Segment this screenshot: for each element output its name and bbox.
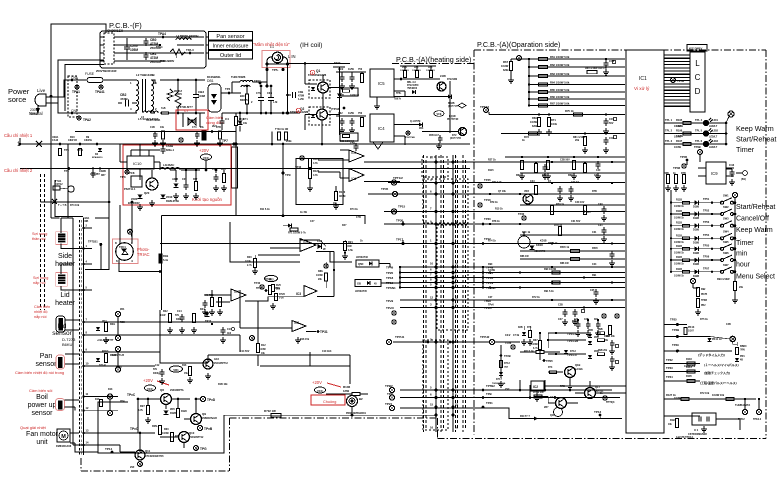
svg-text:Vi xử lý: Vi xử lý (634, 85, 650, 91)
test points right of bus (478, 178, 491, 245)
wire transformer out top (160, 79, 205, 81)
svg-text:C40: C40 (596, 169, 601, 172)
svg-text:1/16W: 1/16W (162, 433, 169, 435)
svg-text:R105: R105 (686, 375, 692, 378)
svg-text:1/16W 1k: 1/16W 1k (674, 252, 685, 254)
transistor Q1 inverter (308, 69, 330, 109)
svg-text:TP21: TP21 (385, 402, 393, 406)
wire trunk x101 (85, 218, 109, 270)
lid heater element (56, 264, 73, 290)
label Pan sensor (35, 353, 57, 368)
svg-text:R?42 1W: R?42 1W (533, 391, 544, 394)
annotation box Khoi tao nguon (123, 145, 231, 205)
svg-text:IC6: IC6 (351, 151, 356, 155)
wire comparator band (240, 297, 304, 328)
svg-text:R16 15k: R16 15k (300, 338, 310, 341)
svg-text:TPLC1: TPLC1 (567, 332, 577, 336)
wire IC6 inputs (318, 160, 349, 178)
button rows right rail (734, 201, 737, 276)
row TP33 signal (664, 366, 730, 375)
svg-text:TPA4: TPA4 (158, 32, 166, 36)
label Lid sensor (52, 323, 76, 347)
label Start/Reheat (736, 204, 775, 211)
capacitor C4 (212, 113, 229, 130)
components right of IC5 (400, 75, 466, 133)
label Fan motor unit (26, 431, 59, 446)
components rows 251-259 (560, 246, 615, 266)
svg-text:7uB: 7uB (161, 107, 166, 110)
svg-text:R?4 1k: R?4 1k (488, 240, 497, 243)
svg-text:15: 15 (455, 403, 459, 407)
components strip above IC10 (150, 126, 223, 146)
resistor R11 (234, 113, 244, 132)
svg-text:TPB: TPB (486, 392, 492, 396)
svg-text:CA16: CA16 (52, 139, 59, 142)
svg-text:R27 1k: R27 1k (488, 159, 496, 162)
svg-text:R110: R110 (116, 366, 122, 369)
wire lower bus to inverter (222, 112, 300, 115)
svg-text:TP19: TP19 (486, 281, 494, 285)
svg-text:D19B: D19B (693, 263, 699, 266)
svg-text:TPA4: TPA4 (156, 45, 163, 49)
svg-text:IC2: IC2 (533, 385, 538, 389)
svg-text:2F: 2F (323, 248, 326, 251)
test point TP30 left (396, 219, 405, 226)
svg-text:6-?k: 6-?k (533, 348, 538, 350)
svg-text:TPN5: TPN5 (546, 359, 553, 363)
svg-text:ZD1: ZD1 (102, 320, 107, 323)
wire fan rail (137, 399, 139, 433)
svg-text:1/16W 1k: 1/16W 1k (674, 242, 685, 244)
svg-text:IC3: IC3 (296, 292, 301, 296)
svg-text:BBD0: BBD0 (740, 345, 747, 348)
resistor R60 (585, 67, 607, 74)
svg-text:105M: 105M (130, 48, 138, 52)
wires PCB-F to sensor boxes (206, 37, 209, 53)
svg-text:R11B: R11B (676, 245, 682, 248)
svg-text:R63 1/16W 5.6k: R63 1/16W 5.6k (550, 72, 570, 76)
inductor L1 IH coil (262, 45, 290, 68)
svg-text:250VTBCR104F: 250VTBCR104F (96, 69, 117, 73)
test point TP50 (671, 78, 685, 83)
LCD bus hatch lines (664, 55, 690, 106)
test point TPA1 (72, 85, 80, 94)
svg-text:Q1: Q1 (316, 69, 320, 73)
svg-text:R11B: R11B (676, 256, 682, 259)
svg-text:R05L: R05L (152, 425, 158, 428)
power +20V fan (143, 378, 169, 391)
wire IC10 internals (120, 162, 200, 180)
transistor Q17 lower (575, 381, 615, 404)
components below buttons (690, 278, 707, 315)
capacitor C6B (256, 85, 264, 115)
varistor ZNR1 (175, 79, 181, 115)
red mark driver 2 (296, 108, 300, 113)
power rail +20V oval (199, 148, 212, 171)
svg-text:R115: R115 (488, 169, 494, 172)
wire L IN (288, 62, 351, 80)
svg-text:R20: R20 (247, 256, 252, 259)
svg-text:R64 1/16W 5.6k: R64 1/16W 5.6k (550, 81, 570, 85)
svg-text:C3B: C3B (298, 90, 303, 94)
svg-text:TPB-: TPB- (396, 93, 402, 95)
capacitor C33 (603, 58, 616, 75)
svg-text:R545 1k: R545 1k (560, 246, 570, 249)
svg-text:R78 1k: R78 1k (554, 224, 563, 227)
svg-text:R90 1/16W: R90 1/16W (544, 268, 557, 271)
svg-text:SW4: SW4 (723, 229, 729, 233)
svg-text:BIC1: BIC1 (240, 94, 246, 98)
capacitor C3B (286, 90, 304, 101)
svg-text:TPvD: TPvD (484, 306, 493, 310)
annotation Quat giai nhiet (20, 425, 47, 430)
svg-text:R117?.?: R117?.? (520, 414, 530, 418)
opamp IC6 lower (349, 169, 400, 182)
svg-text:SW7: SW7 (723, 263, 729, 267)
svg-text:103M: 103M (198, 94, 206, 98)
svg-text:R11D: R11D (102, 350, 108, 353)
diode D1 below bus (238, 112, 249, 132)
inductor L4 (176, 34, 198, 40)
label IH coil (300, 42, 322, 49)
svg-text:HC56AT46: HC56AT46 (356, 256, 368, 259)
svg-text:TP40: TP40 (254, 281, 261, 285)
svg-text:R99 1/16W: R99 1/16W (717, 278, 730, 281)
label Neutral (29, 111, 43, 116)
svg-text:Quạt giải nhiệt: Quạt giải nhiệt (20, 425, 47, 430)
zener ZD20 (128, 195, 142, 205)
svg-text:R12B: R12B (170, 412, 176, 415)
wire rows TPv9 TPvO (386, 299, 620, 324)
svg-text:R?3: R?3 (548, 367, 553, 369)
svg-text:1-2W: 1-2W (298, 98, 304, 101)
reset ic IC9 (698, 162, 734, 184)
row TP32 signal (664, 358, 739, 368)
test point TPT1-2 (391, 176, 403, 185)
svg-text:IC6: IC6 (351, 177, 356, 181)
svg-text:TP45: TP45 (381, 187, 389, 191)
label Cancel/Off (736, 216, 769, 223)
wire IH coil legs (265, 62, 289, 114)
svg-text:R66 1/16W 5.6k: R66 1/16W 5.6k (550, 95, 570, 99)
svg-text:TPT1B1: TPT1B1 (88, 240, 98, 244)
zener rows TPLC1-3 (548, 329, 619, 370)
svg-text:VR3: VR3 (524, 190, 529, 193)
svg-text:R?26: R?26 (279, 293, 286, 296)
svg-text:R123: R123 (670, 419, 676, 422)
board connector bus lines (424, 155, 466, 432)
svg-text:Keep Warm: Keep Warm (736, 124, 774, 133)
svg-text:Q7 10k: Q7 10k (498, 190, 507, 193)
svg-text:16: 16 (455, 426, 459, 430)
svg-text:VR1: VR1 (173, 368, 179, 372)
svg-text:1/16W: 1/16W (531, 344, 538, 346)
test point TP43 (331, 107, 345, 111)
test point TP14 (105, 447, 142, 469)
switch SW4 Timer (670, 229, 735, 244)
svg-text:Chuông: Chuông (323, 400, 336, 404)
svg-text:(TP43): (TP43) (331, 107, 340, 111)
test point TP45 (381, 187, 398, 197)
svg-text:R?5: R?5 (527, 327, 532, 329)
wire CN1 to fuse (72, 79, 86, 81)
wire heater feed (41, 201, 111, 204)
diode D30 cluster (170, 169, 199, 200)
svg-text:SW1: SW1 (723, 194, 729, 198)
diode pair cluster 525 (518, 326, 533, 345)
svg-text:ZDB: ZDB (588, 329, 593, 332)
wire trunk x240 (239, 290, 241, 352)
test point TPG (194, 446, 207, 451)
svg-text:L203: L203 (712, 139, 718, 143)
svg-text:C31: C31 (592, 231, 597, 234)
capacitor CB0 (144, 38, 162, 50)
svg-text:IC3: IC3 (234, 290, 239, 294)
gate drive ic IC4 (370, 114, 422, 149)
gate drive ic IC5 (370, 69, 450, 109)
svg-text:EPA08010: EPA08010 (92, 156, 103, 159)
optocoupler PC8 (124, 171, 142, 191)
svg-text:12: 12 (455, 296, 459, 300)
annotation Cam bien soi (29, 388, 52, 393)
wire F-board feeder 3 (65, 65, 104, 112)
components below IC9 (664, 145, 702, 191)
label PCB-A operation side (477, 40, 560, 49)
svg-text:TPG: TPG (200, 447, 207, 451)
wire boil sensor (65, 400, 80, 411)
label Live (37, 88, 46, 93)
svg-text:6T30/2SB12M6: 6T30/2SB12M6 (290, 110, 309, 114)
svg-text:Q5D: Q5D (358, 262, 363, 266)
resistor R1B dark (159, 254, 169, 263)
svg-text:C64B: C64B (166, 144, 173, 148)
svg-text:R22: R22 (163, 310, 168, 313)
svg-text:R117 1k: R117 1k (524, 349, 534, 353)
inductor L5 choke (141, 107, 169, 122)
opamp IC3 a (300, 239, 352, 263)
side heater element (56, 218, 72, 249)
svg-text:50V: 50V (153, 369, 158, 371)
svg-text:R11 5-1k: R11 5-1k (260, 208, 270, 211)
svg-text:X 1: X 1 (694, 428, 699, 432)
svg-text:hour: hour (736, 262, 751, 269)
svg-text:TP4?: TP4? (334, 61, 341, 65)
svg-text:R67: R67 (193, 178, 198, 181)
svg-text:D?B: D?B (216, 126, 221, 129)
annotation Soi nung nap noi (33, 276, 48, 285)
svg-text:RGBL6TBH: RGBL6TBH (166, 200, 179, 203)
svg-text:2SD13BPTA: 2SD13BPTA (170, 389, 184, 392)
svg-text:Q11: Q11 (145, 449, 151, 453)
svg-text:PK11 1k: PK11 1k (712, 338, 722, 341)
inductor L6 (231, 75, 261, 93)
svg-text:R86 1W: R86 1W (520, 255, 529, 258)
label P.C.B.-(F) (109, 21, 142, 30)
svg-text:C2B: C2B (558, 304, 563, 307)
svg-text:D11: D11 (112, 354, 117, 357)
component value labels texture (108, 125, 731, 403)
svg-text:sensor: sensor (52, 330, 72, 337)
svg-text:P.C.B.-(A)(heating side): P.C.B.-(A)(heating side) (396, 55, 471, 64)
components IC3b bias (202, 290, 231, 315)
svg-text:20k: 20k (739, 286, 744, 289)
wire resonant vertical (333, 61, 345, 135)
svg-text:TP54: TP54 (703, 233, 710, 237)
svg-text:R16: R16 (182, 364, 187, 367)
capacitor C30 (212, 167, 227, 191)
svg-text:620k: 620k (532, 125, 538, 128)
svg-text:C?B: C?B (356, 216, 361, 219)
svg-text:+20V: +20V (143, 378, 153, 383)
LCD block (690, 52, 705, 112)
oval VR2 (256, 275, 286, 309)
row serial (664, 393, 762, 421)
svg-text:50V: 50V (609, 122, 614, 125)
components boil sensor tp (95, 394, 113, 416)
svg-text:R73: R73 (524, 135, 529, 139)
svg-text:TP18: TP18 (386, 276, 394, 280)
opamp IC3 c (292, 321, 328, 344)
svg-text:TP15: TP15 (398, 205, 406, 209)
svg-text:TP32: TP32 (666, 358, 673, 362)
svg-text:1/16W: 1/16W (676, 135, 684, 138)
svg-text:VCE: VCE (437, 113, 442, 116)
svg-text:IC5: IC5 (378, 81, 385, 86)
svg-text:C59: C59 (350, 141, 355, 145)
button rows vertical feed line (670, 190, 672, 272)
varistor ZNR1Z (167, 89, 183, 101)
svg-text:EPA3000V: EPA3000V (128, 202, 140, 205)
row TPB right labels (482, 384, 496, 408)
svg-text:1&#176;TPK3.1: 1&#176;TPK3.1 (676, 436, 694, 439)
regulator IC10 (127, 150, 160, 169)
svg-text:L201: L201 (712, 118, 718, 122)
test point TP36 (673, 164, 686, 170)
svg-text:TPv9: TPv9 (386, 299, 394, 303)
board connector outline upper (422, 157, 468, 223)
svg-text:4.7k: 4.7k (313, 174, 318, 177)
svg-text:C31: C31 (598, 224, 603, 227)
capacitor cluster C20 (574, 319, 601, 336)
svg-text:R45: R45 (428, 66, 433, 69)
svg-text:BQ1D: BQ1D (449, 115, 456, 118)
board connector junction dots (435, 161, 455, 417)
svg-text:R196: R196 (676, 129, 683, 133)
svg-text:1/16W 1k: 1/16W 1k (674, 264, 685, 266)
transistor Q6 fan driver (138, 388, 190, 405)
svg-text:R61 1/16W 5.6k: R61 1/16W 5.6k (550, 55, 570, 59)
svg-text:1/2W: 1/2W (348, 112, 354, 115)
svg-text:R11B: R11B (676, 199, 682, 202)
svg-text:10: 10 (430, 262, 434, 266)
svg-text:R195: R195 (676, 118, 683, 122)
svg-text:R6B: R6B (664, 172, 669, 175)
svg-text:TP2B: TP2B (672, 328, 679, 332)
svg-text:C4?: C4? (310, 220, 315, 223)
svg-text:PKM22EPBH2001: PKM22EPBH2001 (346, 412, 367, 415)
resistor R67 pullup (501, 56, 529, 84)
svg-text:CN2B: CN2B (99, 170, 106, 173)
components op rows 300-320 (520, 300, 625, 342)
LED row L201 Keep Warm (664, 118, 727, 128)
svg-text:?N54NV3: ?N54NV3 (407, 87, 418, 90)
svg-text:Cancel/Off: Cancel/Off (736, 216, 769, 223)
svg-text:R11B: R11B (676, 222, 682, 225)
svg-text:1/10W: 1/10W (259, 349, 266, 351)
svg-text:TP9B: TP9B (694, 145, 701, 149)
svg-text:min: min (736, 250, 747, 257)
svg-text:Cảm biến nhiệt độ nồi trong: Cảm biến nhiệt độ nồi trong (15, 370, 64, 375)
diode KD18 (518, 232, 546, 253)
svg-text:750: 750 (358, 112, 363, 115)
thermal fuse TF2 (52, 180, 90, 223)
svg-text:1/8W1k: 1/8W1k (84, 140, 93, 142)
svg-text:ZD4: ZD4 (120, 400, 125, 403)
capacitor feedback IC6 (340, 141, 359, 151)
svg-text:D10SB60L: D10SB60L (207, 75, 221, 79)
svg-text:D51: D51 (340, 94, 345, 97)
components row TPT42 (530, 109, 617, 135)
svg-text:1/8W 1B: 1/8W 1B (68, 140, 77, 142)
components pan sensor conditioning (96, 346, 125, 372)
connector CN2001EH (100, 29, 124, 64)
svg-text:R?2 10k: R?2 10k (700, 392, 710, 395)
svg-text:R86 1W: R86 1W (560, 262, 569, 265)
svg-text:KD18: KD18 (536, 243, 543, 247)
label hour (736, 262, 751, 269)
wire lid sensor signals (92, 322, 240, 335)
svg-text:C31 50V: C31 50V (571, 220, 581, 223)
svg-text:PR1: PR1 (740, 355, 745, 358)
svg-text:R78 1k: R78 1k (492, 220, 500, 223)
svg-text:TPL 4: TPL 4 (695, 118, 703, 122)
row TP29 (664, 343, 732, 352)
PCB heating-side bottom dash-dot border (81, 418, 438, 471)
capacitor CB3 (193, 79, 206, 115)
svg-text:TP17: TP17 (396, 238, 404, 242)
capacitor CB2 (118, 93, 137, 107)
svg-text:L: L (695, 59, 700, 68)
svg-text:C12: C12 (155, 364, 160, 367)
svg-text:R12: R12 (261, 344, 266, 347)
svg-text:L IN: L IN (288, 54, 296, 59)
svg-text:R7B: R7B (681, 172, 686, 175)
red mark driver 1 (310, 70, 314, 75)
svg-text:GB: GB (357, 282, 361, 286)
svg-text:BD2B: BD2B (448, 102, 455, 105)
wire F-board feeder 2 (58, 60, 104, 103)
wire row R73 (501, 132, 625, 153)
ground IC10 area (137, 200, 155, 210)
svg-text:TP53: TP53 (703, 220, 710, 224)
svg-text:C23 F3: C23 F3 (571, 181, 580, 184)
opamp IC6 upper (349, 150, 423, 162)
svg-text:C1B: C1B (150, 126, 155, 129)
svg-text:TPR8: TPR8 (701, 300, 708, 302)
svg-text:R64 3-3k: R64 3-3k (492, 181, 503, 184)
box Inner enclosure (209, 41, 253, 50)
svg-text:D24: D24 (200, 308, 205, 311)
svg-text:C43: C43 (729, 163, 735, 167)
wire boil sensor signals (92, 397, 118, 411)
svg-text:?6?: ?6? (504, 367, 509, 369)
wire 20V rail top (20, 143, 470, 145)
svg-text:T?49 1k 1W: T?49 1k 1W (275, 128, 289, 131)
svg-text:16: 16 (430, 426, 434, 430)
svg-text:HC56AT45: HC56AT45 (355, 290, 367, 293)
svg-text:TPvO: TPvO (386, 306, 395, 310)
svg-text:2-?k: 2-?k (247, 265, 252, 267)
